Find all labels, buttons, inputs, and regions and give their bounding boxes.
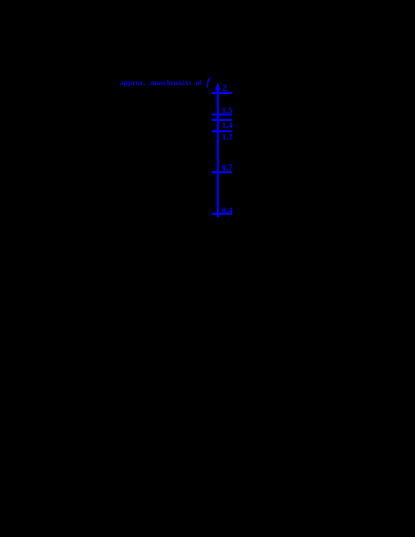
svg-text:0.7: 0.7 bbox=[222, 162, 234, 172]
svg-text:1.4: 1.4 bbox=[222, 120, 234, 130]
svg-text:0.4: 0.4 bbox=[222, 205, 234, 215]
svg-text:1.5: 1.5 bbox=[222, 105, 234, 115]
mass axis (vertical arrow) bbox=[217, 86, 219, 217]
level line 0.7 bbox=[212, 171, 232, 173]
svg-text:1.2: 1.2 bbox=[222, 131, 234, 141]
svg-text:2: 2 bbox=[222, 84, 227, 94]
level line 1.2 bbox=[212, 130, 232, 132]
arrowhead bbox=[215, 82, 221, 91]
level line 1.5 bbox=[212, 113, 232, 115]
level line 2 bbox=[212, 92, 232, 94]
level line 1.4 bbox=[212, 119, 232, 121]
level line 0.4 bbox=[212, 213, 232, 215]
